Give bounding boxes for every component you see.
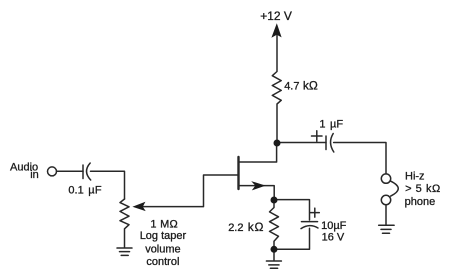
svg-text:16 V: 16 V xyxy=(322,232,345,244)
svg-text:1 MΩ: 1 MΩ xyxy=(150,219,178,231)
svg-text:Log taper: Log taper xyxy=(140,230,187,242)
svg-text:10µF: 10µF xyxy=(321,220,347,232)
svg-text:0.1: 0.1 xyxy=(68,184,83,196)
svg-text:control: control xyxy=(146,256,179,268)
svg-text:µF: µF xyxy=(330,119,343,131)
svg-text:in: in xyxy=(30,169,39,181)
svg-text:2.2: 2.2 xyxy=(228,222,243,234)
svg-text:volume: volume xyxy=(145,244,180,256)
svg-text:> 5 kΩ: > 5 kΩ xyxy=(405,183,441,195)
svg-text:+12 V: +12 V xyxy=(260,9,292,23)
svg-text:Hi-z: Hi-z xyxy=(405,170,425,182)
svg-text:kΩ: kΩ xyxy=(303,79,318,93)
svg-text:4.7: 4.7 xyxy=(284,81,299,93)
svg-text:µF: µF xyxy=(88,184,102,196)
svg-text:kΩ: kΩ xyxy=(248,220,264,234)
svg-text:phone: phone xyxy=(405,196,436,208)
svg-text:1: 1 xyxy=(319,119,325,131)
